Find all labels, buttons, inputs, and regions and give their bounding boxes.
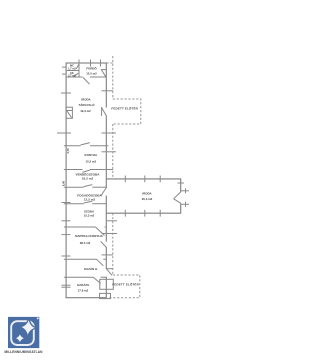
wall: NAPPALI bottom y=259.2 — [64, 258, 97, 260]
door: IRODA bottom wall leaf — [81, 143, 90, 145]
svg-text:38,5 m2: 38,5 m2 — [80, 241, 91, 245]
door: wall into wing from main building — [101, 188, 106, 196]
svg-text:12,5 m2: 12,5 m2 — [86, 71, 97, 75]
porch1 dashed rectangle FEDETT ELOTER — [113, 99, 141, 124]
room label: KONYHA — [85, 153, 98, 163]
logo: small sparkle star — [14, 333, 25, 344]
door: KONYHA bottom wall leaf — [83, 170, 91, 172]
wall: stub near FURDO right door y=69.6 — [101, 69, 107, 71]
svg-text:15,3 m2: 15,3 m2 — [84, 214, 95, 218]
svg-text:IRODA: IRODA — [142, 192, 152, 196]
logo: big sparkle star — [18, 317, 38, 339]
svg-text:17,8 m2: 17,8 m2 — [78, 289, 89, 293]
svg-text:FÜRDŐ: FÜRDŐ — [86, 66, 97, 71]
wall: KAZAN bottom y=277.2 — [64, 276, 93, 278]
logo: blue square — [4, 317, 43, 355]
svg-text:KONYHA: KONYHA — [85, 153, 98, 157]
logo: tiny star top-right — [36, 317, 39, 320]
svg-text:2,7 m2: 2,7 m2 — [68, 75, 76, 78]
door: KAZAN top wall leaf — [97, 259, 104, 266]
door: WC cell2 leaf — [74, 73, 79, 76]
wall: exterior outline of main building — [66, 63, 106, 298]
wall: room1 bottom y=187.2 — [64, 186, 84, 188]
svg-text:15,2 m2: 15,2 m2 — [85, 159, 96, 163]
logo: white rounded frame — [11, 321, 34, 345]
wall: top strip bottom (FURDO floor divider) y=77 — [66, 76, 82, 78]
svg-text:FEDETT ELŐTÉR: FEDETT ELŐTÉR — [112, 281, 139, 286]
room label: room3 SZOBA — [84, 210, 95, 218]
boiler/steps rect at KAZAN door — [100, 279, 114, 289]
roof dashed line: right side upper — [107, 56, 113, 99]
svg-text:FEDETT ELŐTÉR: FEDETT ELŐTÉR — [111, 106, 138, 111]
door: room3 bottom wall leaf into NAPPALI — [96, 227, 105, 236]
svg-text:12,3 m2: 12,3 m2 — [84, 198, 96, 202]
door: KAZAN right wall door to porch2 — [106, 269, 112, 276]
door: main entrance in right wall to porch1 — [101, 107, 106, 116]
wall: WC block right edge x=79 — [78, 63, 80, 77]
svg-text:TÁRGYALÓ: TÁRGYALÓ — [79, 102, 96, 107]
door: top strip into IRODA (leaf) — [83, 77, 90, 84]
door: WC cell1 leaf — [76, 64, 79, 69]
wall: KONYHA bottom y=169.5 — [64, 169, 83, 171]
door: room2 bottom wall leaf — [84, 201, 93, 203]
chimney box on left wall in IRODA — [66, 107, 72, 118]
room label: room2 FOGADOSZOBA — [77, 192, 102, 201]
wall: room3 bottom y=227 — [64, 226, 96, 228]
steps rect at garage bottom right — [100, 293, 111, 298]
door opening gaps (white) on right wall — [105, 108, 107, 277]
svg-text:IRODA: IRODA — [81, 98, 91, 102]
svg-text:MILLENNIUMINGATLAN: MILLENNIUMINGATLAN — [4, 350, 43, 354]
svg-text:GARÁZS: GARÁZS — [77, 282, 89, 287]
window tick marks: right wall and roofline — [102, 91, 118, 255]
svg-text:10,2 m2: 10,2 m2 — [82, 176, 94, 180]
door: room1 bottom wall leaf — [84, 185, 93, 187]
room label: FURDO — [86, 66, 97, 76]
svg-text:6,90: 6,90 — [61, 180, 65, 186]
porch2 dashed rectangle FEDETT ELOTER — [108, 275, 140, 298]
svg-text:NAPPALI-KONYHA: NAPPALI-KONYHA — [75, 234, 104, 238]
svg-text:4,70: 4,70 — [66, 148, 70, 154]
room label: room1 VENDEGSZOBA — [76, 171, 101, 180]
wall: right wing (SZOBA 20,3) outline — [106, 179, 180, 213]
wall: WC cells divider y=70.5 — [66, 70, 79, 72]
wall: room2 bottom y=203.7 — [64, 203, 84, 205]
room label: IRODA TARGYALO — [79, 98, 96, 113]
roof dashed line: below wing — [112, 213, 114, 275]
svg-text:1,7 m2: 1,7 m2 — [68, 67, 76, 70]
window tick marks: left wall — [57, 67, 71, 287]
room label: WC cell1 — [68, 64, 76, 77]
room label: wing IRODA — [142, 192, 153, 202]
room label: GARAZS — [77, 282, 89, 293]
door: wing right wall door leaves — [174, 192, 181, 199]
svg-text:20,3 m2: 20,3 m2 — [142, 197, 153, 201]
roof dashed line: right side between porch1 and wing — [112, 124, 114, 179]
door: FURDO right door leaf — [102, 70, 106, 77]
door: GARAZS top wall leaf — [93, 277, 100, 283]
window tick marks: wing walls — [125, 176, 189, 217]
room label: NAPPALI-KONYHA — [75, 234, 104, 245]
svg-text:KAZÁN H.: KAZÁN H. — [84, 266, 98, 271]
window tick marks: top wall — [79, 60, 101, 67]
door: right wall terrace door of NAPPALI — [101, 241, 107, 247]
svg-text:19,3 m2: 19,3 m2 — [80, 109, 91, 113]
wall: IRODA bottom y=145.7 — [64, 145, 81, 147]
